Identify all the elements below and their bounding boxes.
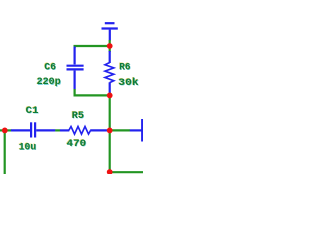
node A junction dot bbox=[107, 43, 113, 49]
wire C6 top corner bbox=[73, 46, 75, 48]
node C junction dot bbox=[107, 127, 113, 133]
wire R6 bottom to node B bbox=[109, 93, 111, 97]
wire node C to output cap bbox=[110, 129, 130, 131]
node E junction dot (bottom corner) bbox=[107, 169, 113, 175]
wire from power rail to node A bbox=[109, 40, 111, 46]
svg-text:R6: R6 bbox=[119, 62, 130, 74]
svg-text:R5: R5 bbox=[72, 110, 84, 122]
capacitor C-out plate bbox=[141, 119, 143, 142]
capacitor C-out left lead bbox=[130, 129, 142, 131]
label C6 bbox=[44, 61, 57, 74]
wire left input segment bbox=[0, 129, 12, 131]
label R5 bbox=[71, 110, 85, 123]
svg-text:C1: C1 bbox=[26, 105, 39, 117]
svg-text:220p: 220p bbox=[37, 76, 61, 88]
wire C6 bottom corner bbox=[75, 89, 110, 95]
wire node B down to node C bbox=[109, 95, 111, 130]
node B junction dot bbox=[107, 93, 113, 99]
wire node A to R6 bbox=[109, 46, 111, 52]
wire between C1 and R5 bbox=[55, 129, 60, 131]
value 30k bbox=[118, 77, 140, 90]
label R6 bbox=[119, 61, 132, 74]
svg-text:470: 470 bbox=[67, 138, 87, 150]
resistor R5 bbox=[60, 127, 110, 135]
value 470 bbox=[66, 138, 87, 151]
wire top horizontal bbox=[74, 45, 110, 47]
wire bottom rail bbox=[110, 130, 143, 172]
wire left vertical drop bbox=[4, 130, 6, 174]
capacitor C6 bbox=[67, 47, 84, 90]
node D junction dot (left) bbox=[2, 127, 8, 133]
value 10u bbox=[18, 141, 37, 154]
svg-text:C6: C6 bbox=[44, 61, 56, 73]
svg-text:30k: 30k bbox=[118, 77, 138, 89]
value 220p bbox=[36, 76, 61, 89]
label C1 bbox=[25, 105, 39, 118]
resistor R6 bbox=[105, 51, 114, 93]
svg-text:10u: 10u bbox=[19, 142, 37, 154]
capacitor C1 bbox=[11, 122, 55, 137]
power rail symbol V+ bbox=[102, 23, 118, 40]
